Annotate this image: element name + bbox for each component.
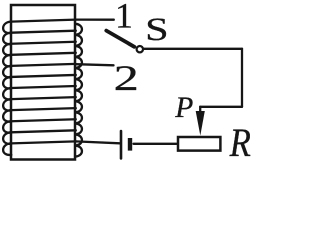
svg-text:R: R <box>229 122 251 164</box>
svg-text:1: 1 <box>115 0 133 35</box>
svg-text:P: P <box>174 92 193 124</box>
svg-text:S: S <box>145 11 168 48</box>
svg-text:2: 2 <box>114 59 139 98</box>
